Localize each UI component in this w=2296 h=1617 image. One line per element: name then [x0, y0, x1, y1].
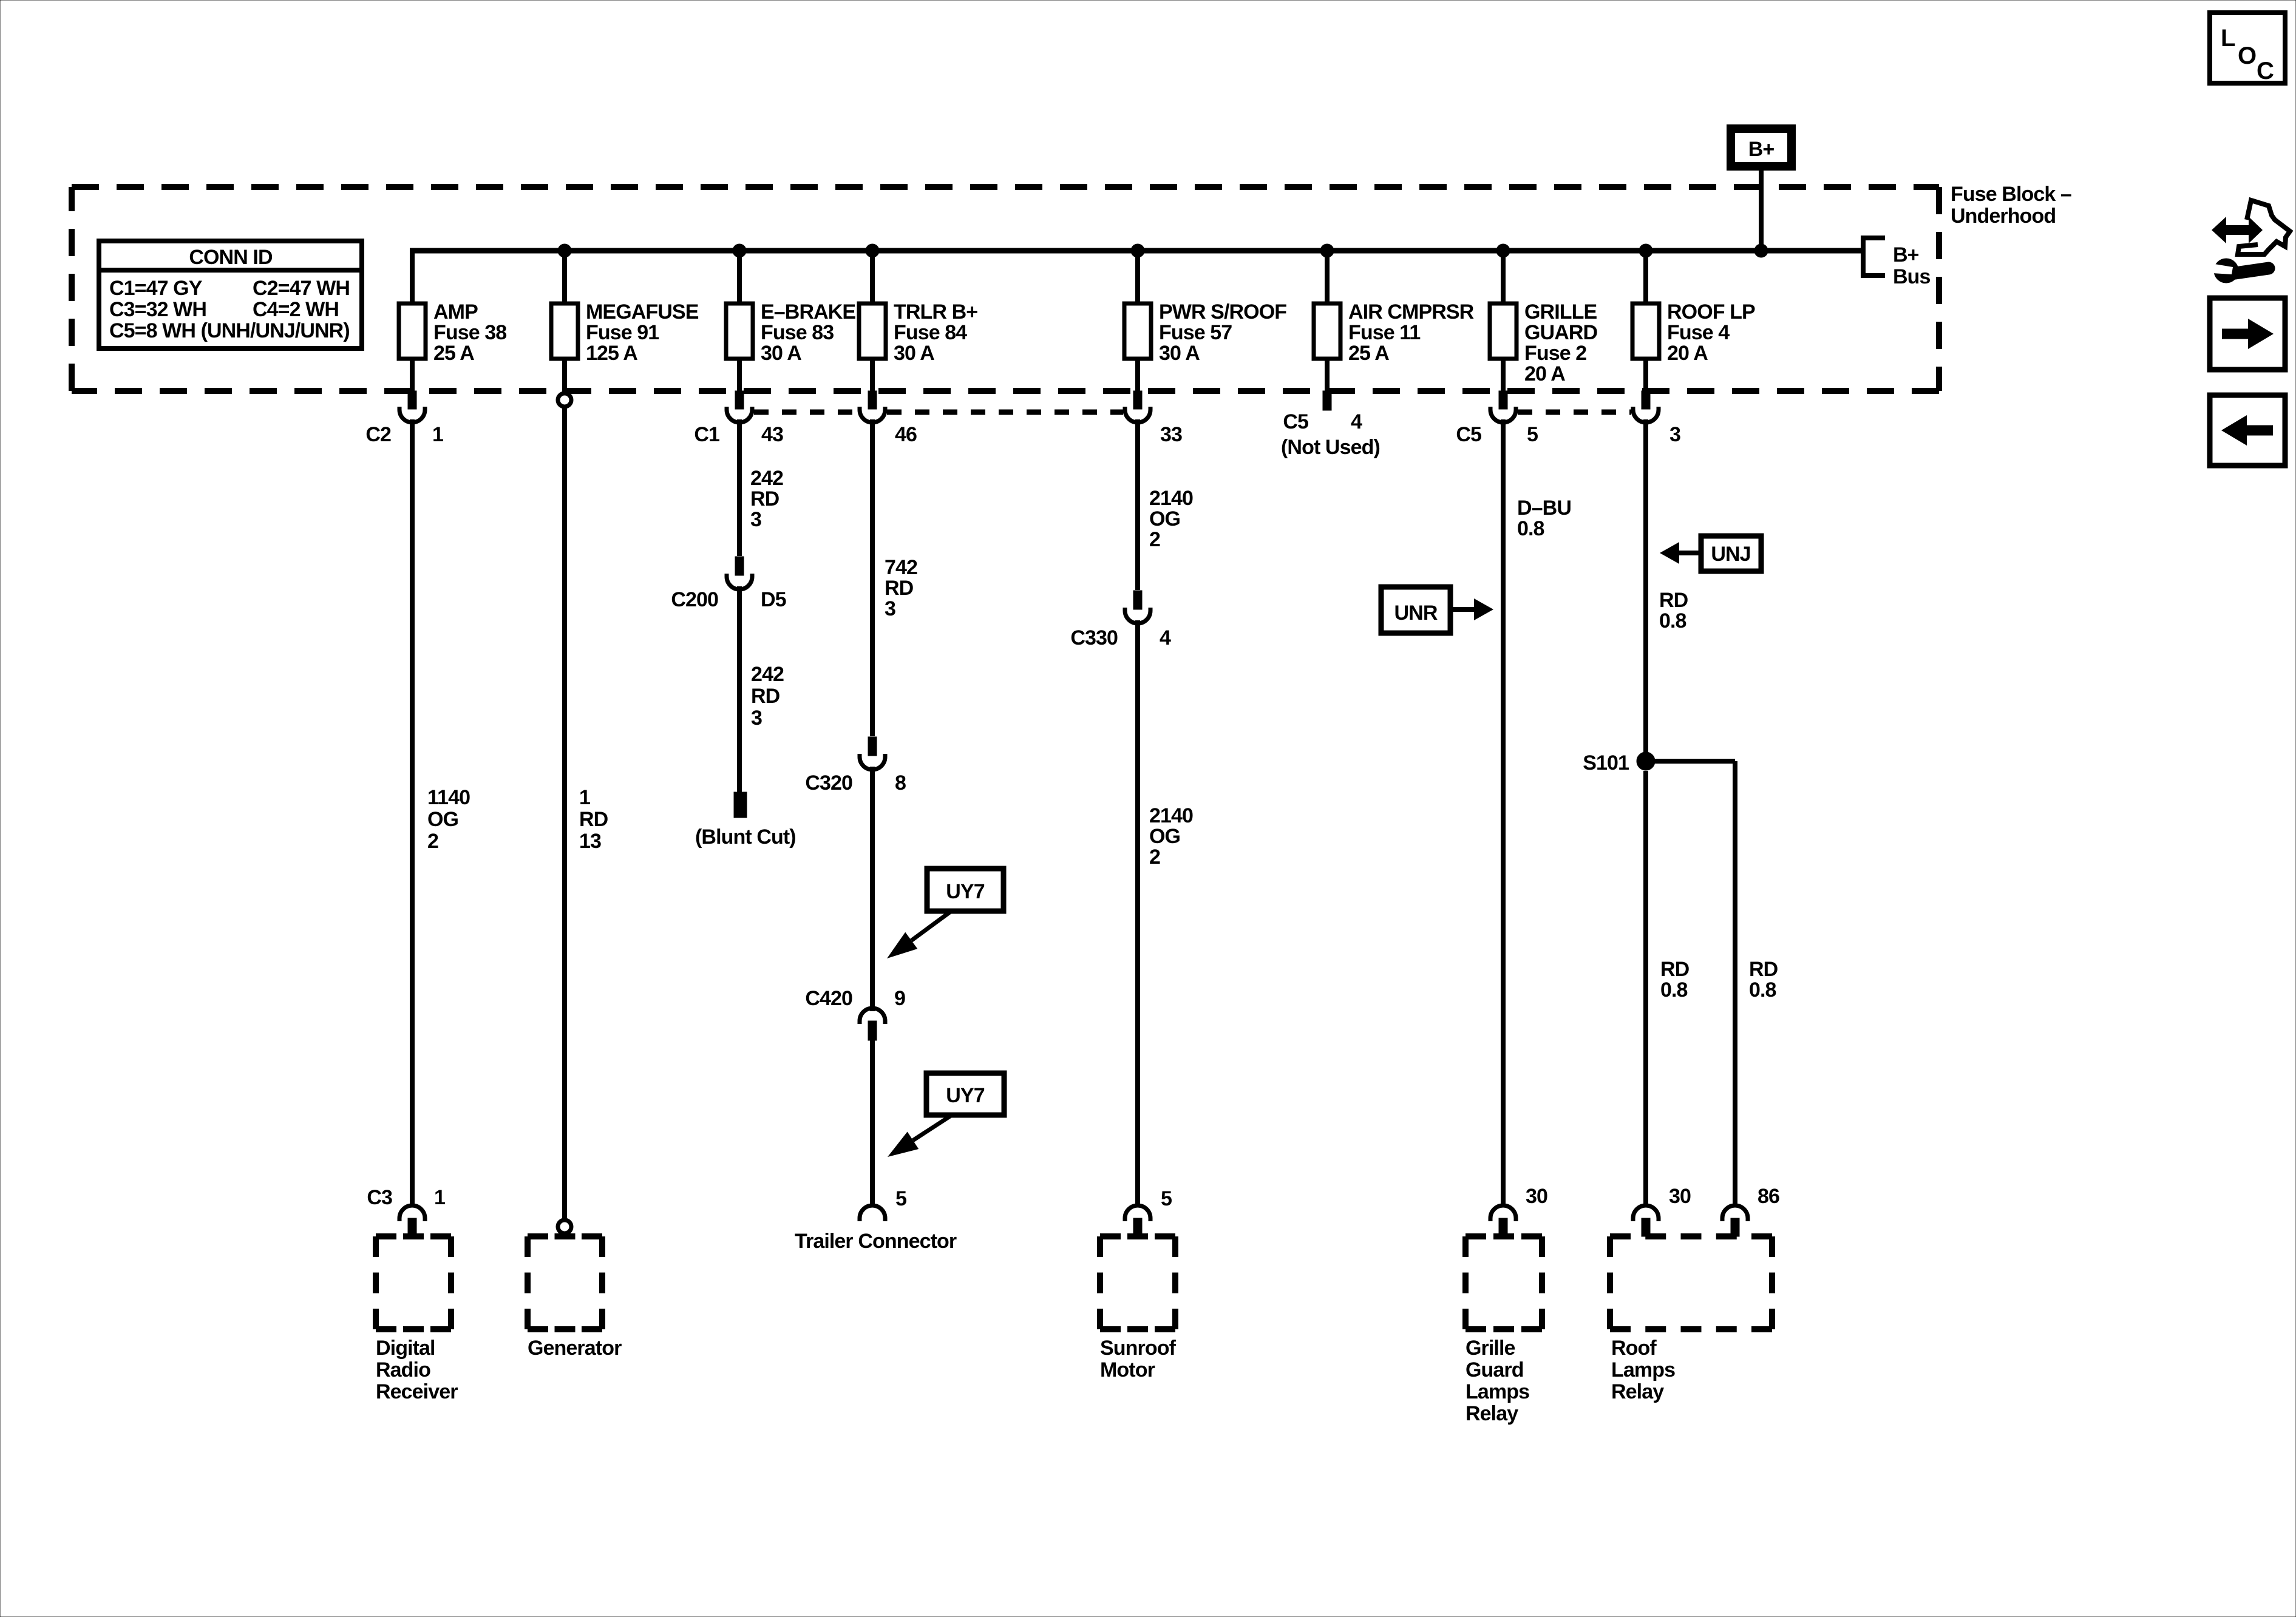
Generator label [528, 1337, 622, 1360]
Generator ring terminal [558, 1220, 571, 1233]
connector C2 pin 1 labels [365, 423, 443, 446]
fuse TRLR B+ (Fuse 84 30 A) [859, 303, 886, 359]
Digital Radio Receiver component dashed box [376, 1236, 451, 1329]
connector C330 pin 4 (pin and cup) [1125, 591, 1150, 623]
svg-text:3: 3 [750, 508, 761, 531]
CONN ID table box [99, 241, 362, 348]
arrow UNJ to wire [1660, 542, 1701, 564]
svg-text:8: 8 [895, 771, 906, 795]
connector C5 pin 4 labels [1281, 410, 1380, 459]
Sunroof Motor dome terminal pin 5 [1125, 1205, 1150, 1236]
fuse E-BRAKE value label [761, 300, 855, 365]
svg-text:Fuse 91: Fuse 91 [586, 321, 659, 344]
svg-text:(Blunt Cut): (Blunt Cut) [695, 825, 796, 849]
wire label 242 RD 3 (upper) [750, 467, 783, 531]
svg-text:C5: C5 [1456, 423, 1481, 446]
svg-text:CONN ID: CONN ID [189, 246, 273, 269]
svg-text:3: 3 [1669, 423, 1680, 446]
svg-text:D5: D5 [761, 588, 786, 611]
wire bus to fuse ROOF LP [1643, 251, 1648, 391]
svg-text:242: 242 [750, 467, 783, 490]
svg-text:AMP: AMP [433, 300, 478, 324]
svg-text:OG: OG [1149, 507, 1180, 531]
wire 46 to C320 [870, 419, 875, 736]
wire label 1140 OG 2 [427, 786, 470, 853]
svg-text:C3=32 WH: C3=32 WH [109, 298, 206, 321]
service icon part outline [2238, 200, 2290, 254]
svg-text:RD: RD [1659, 589, 1688, 612]
svg-text:RD: RD [751, 685, 780, 708]
svg-text:0.8: 0.8 [1749, 978, 1776, 1002]
connector C3 pin 1 dome at Digital Radio Receiver [399, 1205, 425, 1236]
Sunroof Motor pin 5 label [1161, 1187, 1172, 1210]
CONN ID table header text [189, 246, 273, 269]
svg-text:UNJ: UNJ [1711, 543, 1750, 566]
svg-text:Lamps: Lamps [1466, 1380, 1529, 1403]
svg-text:ROOF LP: ROOF LP [1667, 300, 1755, 324]
fuse MEGAFUSE value label [586, 300, 699, 365]
wire label 742 RD 3 [885, 556, 917, 620]
Roof relay pin 86 label [1758, 1185, 1779, 1208]
svg-text:Lamps: Lamps [1611, 1358, 1675, 1381]
junction dot on bus at MEGAFUSE [558, 244, 571, 257]
svg-text:30: 30 [1669, 1185, 1691, 1208]
blunt cut terminal [734, 792, 747, 818]
svg-text:C2: C2 [365, 423, 391, 446]
svg-text:0.8: 0.8 [1659, 609, 1686, 632]
wire label 2140 OG 2 (lower) [1149, 804, 1193, 869]
svg-text:C1: C1 [694, 423, 719, 446]
svg-text:1: 1 [432, 423, 443, 446]
svg-text:0.8: 0.8 [1517, 517, 1544, 540]
svg-text:(Not Used): (Not Used) [1281, 436, 1380, 459]
svg-text:Motor: Motor [1100, 1358, 1155, 1381]
svg-text:Fuse 57: Fuse 57 [1159, 321, 1232, 344]
svg-text:25 A: 25 A [1348, 342, 1389, 365]
Trailer Connector pin 5 label [895, 1187, 906, 1210]
wire label RD 0.8 (left branch) [1660, 958, 1690, 1002]
wire C2-1 to Digital Radio Receiver [410, 419, 415, 1204]
svg-text:242: 242 [751, 663, 784, 686]
svg-text:Fuse 84: Fuse 84 [894, 321, 967, 344]
svg-text:RD: RD [885, 577, 914, 600]
connector pin 46 label [895, 423, 917, 446]
svg-text:1140: 1140 [427, 786, 470, 809]
fuse AIR CMPRSR (Fuse 11 25 A) [1314, 303, 1340, 359]
connector C200 pin D5 (pin and cup) [727, 557, 752, 589]
junction dot on bus at GRILLE GUARD [1496, 244, 1510, 257]
wire bus to fuse AMP [410, 251, 415, 391]
wire label RD 0.8 (right branch) [1749, 958, 1778, 1002]
svg-text:20 A: 20 A [1524, 362, 1565, 385]
svg-text:Relay: Relay [1611, 1380, 1664, 1403]
svg-text:S101: S101 [1583, 751, 1629, 775]
svg-text:Grille: Grille [1466, 1337, 1515, 1360]
wire 3 to S101 [1643, 419, 1648, 761]
svg-text:C320: C320 [805, 771, 852, 795]
wire label 242 RD 3 (lower) [751, 663, 784, 730]
svg-text:2140: 2140 [1149, 804, 1193, 827]
dotted harness line 46-33 [887, 410, 1123, 415]
fuse PWR S/ROOF (Fuse 57 30 A) [1124, 303, 1151, 359]
junction dot on bus at PWR S/ROOF [1131, 244, 1144, 257]
svg-text:C3: C3 [367, 1186, 392, 1209]
Roof relay dome terminal pin 30 [1633, 1205, 1659, 1236]
connector C1 pin 43 labels [694, 423, 783, 446]
svg-text:B+: B+ [1748, 138, 1775, 161]
wire label 1 RD 13 [579, 786, 608, 853]
forward arrow navigation box [2210, 298, 2285, 370]
wire right branch down to relay pin 86 [1733, 761, 1737, 1204]
fuse block - underhood dashed outline box [72, 187, 1939, 391]
wire S101 down to relay pin 30 [1643, 771, 1648, 1204]
connector C330 labels [1070, 626, 1171, 649]
svg-text:GRILLE: GRILLE [1524, 300, 1597, 324]
junction dot B+ drop [1754, 244, 1768, 257]
wire C420 to Trailer Connector [870, 1040, 875, 1204]
svg-text:2: 2 [427, 830, 438, 853]
arrow UY7 (lower) to wire [888, 1115, 952, 1157]
svg-text:Digital: Digital [376, 1337, 435, 1360]
svg-text:Fuse 38: Fuse 38 [433, 321, 506, 344]
wire 33 to C330 [1135, 419, 1140, 590]
fuse AIR CMPRSR value label [1348, 300, 1474, 365]
splice S101 label [1583, 751, 1629, 775]
junction dot on bus at ROOF LP [1639, 244, 1652, 257]
junction dot on bus at TRLR B+ [866, 244, 879, 257]
svg-text:Underhood: Underhood [1951, 205, 2056, 228]
svg-text:UNR: UNR [1394, 602, 1438, 625]
wire C330 to Sunroof Motor [1135, 620, 1140, 1204]
svg-text:4: 4 [1160, 626, 1171, 649]
svg-text:33: 33 [1160, 423, 1182, 446]
svg-text:30 A: 30 A [1159, 342, 1200, 365]
dotted harness line C1-46 [754, 410, 858, 415]
Grille Guard relay dome terminal pin 30 [1490, 1205, 1516, 1236]
CONN ID table row C5 [109, 319, 350, 342]
Grille Guard relay pin 30 label [1526, 1185, 1547, 1208]
back arrow navigation box [2210, 395, 2285, 466]
connector C320 pin 8 (pin and cup) [860, 737, 885, 770]
svg-text:UY7: UY7 [946, 880, 984, 903]
Roof Lamps Relay label [1611, 1337, 1675, 1403]
svg-text:43: 43 [761, 423, 783, 446]
svg-text:C4=2 WH: C4=2 WH [253, 298, 339, 321]
svg-text:AIR CMPRSR: AIR CMPRSR [1348, 300, 1474, 324]
fuse PWR S/ROOF value label [1159, 300, 1286, 365]
svg-text:D–BU: D–BU [1517, 497, 1571, 520]
svg-text:Fuse Block –: Fuse Block – [1951, 183, 2071, 206]
svg-text:30 A: 30 A [761, 342, 801, 365]
svg-text:Fuse 11: Fuse 11 [1348, 321, 1420, 344]
svg-text:Relay: Relay [1466, 1402, 1518, 1425]
svg-text:3: 3 [885, 597, 895, 620]
fuse E-BRAKE (Fuse 83 30 A) [726, 303, 753, 359]
svg-text:Receiver: Receiver [376, 1380, 458, 1403]
svg-text:MEGAFUSE: MEGAFUSE [586, 300, 699, 324]
Trailer Connector label [795, 1230, 957, 1253]
svg-text:PWR S/ROOF: PWR S/ROOF [1159, 300, 1286, 324]
svg-text:C5=8 WH (UNH/UNJ/UNR): C5=8 WH (UNH/UNJ/UNR) [109, 319, 350, 342]
option box UNJ [1701, 536, 1761, 571]
Grille Guard Lamps Relay label [1466, 1337, 1529, 1425]
connector C2 pin 1 at AMP fuse (pin and cup) [399, 391, 425, 422]
MEGAFUSE output ring terminal [558, 391, 571, 407]
svg-text:Generator: Generator [528, 1337, 622, 1360]
fuse GRILLE GUARD value label [1524, 300, 1598, 385]
svg-text:Guard: Guard [1466, 1358, 1524, 1381]
junction dot on bus at E-BRAKE [733, 244, 746, 257]
svg-text:OG: OG [427, 808, 458, 831]
svg-text:GUARD: GUARD [1524, 321, 1598, 344]
svg-text:2: 2 [1149, 528, 1160, 551]
Sunroof Motor component dashed box [1100, 1236, 1175, 1329]
connector C1 pin 43 at E-BRAKE fuse (pin and cup) [727, 391, 752, 422]
svg-text:5: 5 [895, 1187, 906, 1210]
svg-text:C5: C5 [1283, 410, 1308, 433]
option box UY7 (upper) [927, 869, 1004, 911]
svg-text:C1=47 GY: C1=47 GY [109, 277, 203, 300]
wire bus to fuse TRLR B+ [870, 251, 875, 391]
wire B+ box to bus [1759, 171, 1764, 251]
svg-text:25 A: 25 A [433, 342, 474, 365]
svg-text:5: 5 [1527, 423, 1538, 446]
wire C320 to C420 [870, 767, 875, 1011]
svg-text:RD: RD [750, 487, 779, 510]
Digital Radio Receiver label [376, 1337, 458, 1403]
svg-text:OG: OG [1149, 825, 1180, 848]
wire bus to fuse E-BRAKE [737, 251, 742, 391]
svg-text:2: 2 [1149, 846, 1160, 869]
svg-text:C200: C200 [671, 588, 718, 611]
svg-text:C420: C420 [805, 987, 852, 1010]
connector C200 labels [671, 588, 786, 611]
option box UY7 (lower) [926, 1073, 1004, 1115]
LOC locator box [2210, 13, 2285, 84]
wire label RD 0.8 (above S101) [1659, 589, 1688, 632]
option box UNR [1381, 587, 1450, 633]
svg-text:30: 30 [1526, 1185, 1547, 1208]
svg-text:L: L [2221, 25, 2235, 52]
fuse GRILLE GUARD (GUARD Fuse 2 20 A) [1490, 303, 1517, 359]
wire label D-BU 0.8 [1517, 497, 1571, 540]
svg-text:1: 1 [434, 1186, 445, 1209]
svg-text:1: 1 [579, 786, 590, 809]
svg-text:RD: RD [579, 808, 608, 831]
svg-text:C: C [2257, 58, 2274, 84]
blunt cut label [695, 825, 796, 849]
wire bus to fuse MEGAFUSE [562, 251, 567, 391]
svg-text:E–BRAKE: E–BRAKE [761, 300, 855, 324]
svg-text:4: 4 [1351, 410, 1362, 433]
connector C420 pin 9 (dome and pin) [860, 1008, 885, 1040]
connector C5 pin 5 at GRILLE GUARD fuse (pin and cup) [1490, 391, 1516, 422]
fuse TRLR B+ value label [894, 300, 977, 365]
wire bus to fuse GRILLE GUARD [1501, 251, 1506, 391]
Generator component dashed box [528, 1236, 602, 1329]
svg-text:Trailer Connector: Trailer Connector [795, 1230, 957, 1253]
splice S101 junction dot [1637, 752, 1655, 770]
wire bus to fuse PWR S/ROOF [1135, 251, 1140, 391]
svg-text:Radio: Radio [376, 1358, 430, 1381]
svg-text:13: 13 [579, 830, 601, 853]
svg-text:UY7: UY7 [946, 1084, 984, 1107]
B+ battery feed box [1731, 129, 1792, 166]
fuse AMP value label [433, 300, 506, 365]
svg-text:Fuse 2: Fuse 2 [1524, 342, 1586, 365]
connector C5 pin 5 labels [1456, 423, 1538, 446]
svg-text:TRLR B+: TRLR B+ [894, 300, 977, 324]
wire S101 branch to right [1646, 759, 1735, 764]
Roof relay pin 30 label [1669, 1185, 1691, 1208]
svg-text:Fuse 83: Fuse 83 [761, 321, 834, 344]
wire bus to fuse AIR CMPRSR [1325, 251, 1330, 391]
connector C5 pin 4 (not used) stub pin [1323, 391, 1331, 410]
svg-text:30 A: 30 A [894, 342, 934, 365]
svg-text:RD: RD [1660, 958, 1690, 981]
wire C1-43 to C200 [737, 419, 742, 556]
connector C3 pin 1 labels [367, 1186, 445, 1209]
svg-text:Bus: Bus [1893, 265, 1931, 288]
connector pin 3 at ROOF LP fuse (pin and cup) [1633, 391, 1659, 422]
Roof Lamps Relay component dashed box [1610, 1236, 1772, 1329]
Trailer Connector dome terminal pin 5 [860, 1205, 885, 1221]
fuse ROOF LP (Fuse 4 20 A) [1632, 303, 1659, 359]
fuse AMP (Fuse 38 25 A) [399, 303, 426, 359]
Grille Guard Lamps Relay component dashed box [1466, 1236, 1542, 1329]
svg-text:RD: RD [1749, 958, 1778, 981]
arrow UY7 (upper) to wire [887, 911, 951, 958]
wire label 2140 OG 2 (upper) [1149, 487, 1193, 551]
CONN ID table row C1/C2 [109, 277, 350, 300]
wire C200 to blunt cut [737, 586, 742, 792]
connector pin 46 at TRLR B+ fuse (pin and cup) [860, 391, 885, 422]
svg-text:B+: B+ [1893, 243, 1919, 266]
wire C5-5 to Grille Guard Lamps Relay [1501, 419, 1506, 1204]
svg-text:C2=47 WH: C2=47 WH [253, 277, 350, 300]
svg-text:0.8: 0.8 [1660, 978, 1688, 1002]
svg-text:2140: 2140 [1149, 487, 1193, 510]
CONN ID table row C3/C4 [109, 298, 339, 321]
connector C320 labels [805, 771, 906, 795]
svg-text:5: 5 [1161, 1187, 1172, 1210]
junction dot on bus at AIR CMPRSR [1320, 244, 1334, 257]
fuse block label: Fuse Block - Underhood [1951, 183, 2071, 228]
connector pin 33 label [1160, 423, 1182, 446]
B+ Bus bracket terminal [1863, 238, 1931, 288]
wire MEGAFUSE to Generator [562, 407, 567, 1221]
svg-text:125 A: 125 A [586, 342, 637, 365]
svg-text:O: O [2238, 42, 2256, 69]
Sunroof Motor label [1100, 1337, 1177, 1381]
svg-text:86: 86 [1758, 1185, 1779, 1208]
svg-text:742: 742 [885, 556, 917, 579]
svg-text:3: 3 [751, 707, 762, 730]
svg-text:Roof: Roof [1611, 1337, 1657, 1360]
Roof relay dome terminal pin 86 [1722, 1205, 1748, 1236]
svg-text:Sunroof: Sunroof [1100, 1337, 1177, 1360]
connector pin 33 at PWR S/ROOF fuse (pin and cup) [1125, 391, 1150, 422]
service icon double arrow [2212, 217, 2263, 243]
dotted harness line C5-3 [1518, 410, 1631, 415]
arrow UNR to wire [1450, 598, 1493, 620]
svg-text:Fuse 4: Fuse 4 [1667, 321, 1730, 344]
fuse MEGAFUSE (Fuse 91 125 A) [551, 303, 578, 359]
svg-text:C330: C330 [1070, 626, 1118, 649]
svg-text:46: 46 [895, 423, 917, 446]
connector pin 3 label [1669, 423, 1680, 446]
svg-text:20 A: 20 A [1667, 342, 1708, 365]
fuse ROOF LP value label [1667, 300, 1755, 365]
B+ bus line [410, 248, 1863, 254]
connector C420 labels [805, 987, 905, 1010]
svg-text:9: 9 [894, 987, 905, 1010]
service icon wrench [2211, 259, 2269, 283]
